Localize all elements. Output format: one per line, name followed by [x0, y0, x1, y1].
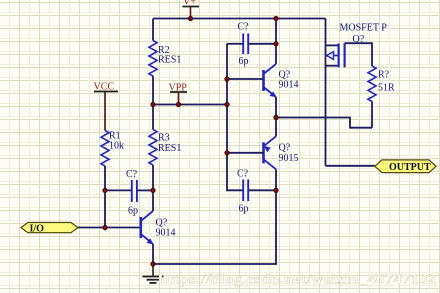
- wire Q1 base: [227, 78, 264, 80]
- node VPP left: [151, 102, 155, 106]
- port OUTPUT: [375, 160, 436, 173]
- resistor R3: [149, 105, 181, 191]
- node VPP stem: [176, 102, 180, 106]
- svg-text:I/O: I/O: [30, 223, 45, 234]
- svg-text:RES1: RES1: [158, 55, 181, 66]
- node R3 bottom: [151, 188, 155, 192]
- wire drain to OUTPUT: [326, 165, 375, 167]
- ground: [143, 264, 164, 283]
- svg-text:MOSFET P: MOSFET P: [340, 23, 388, 34]
- wire right column from rail down: [275, 19, 277, 65]
- wire column mid from C1 corner down: [227, 44, 243, 191]
- svg-text:OUTPUT: OUTPUT: [389, 162, 431, 173]
- wire bottom rail: [153, 190, 276, 264]
- wire top rail: [153, 18, 326, 20]
- svg-text:Q?: Q?: [279, 143, 291, 154]
- wire R2 bottom to VPP rail: [152, 76, 154, 105]
- node ground: [151, 262, 155, 266]
- node C1 right: [274, 42, 278, 46]
- svg-text:https://blog.csdn.net/weixin_4: https://blog.csdn.net/weixin_46747102: [158, 272, 436, 287]
- node emitter out: [274, 115, 278, 119]
- wire Q2 collector down: [275, 169, 277, 190]
- resistor R4 51R: [368, 66, 395, 102]
- capacitor C4 left 6p: [105, 169, 153, 217]
- wire output node to gate resistor: [276, 118, 372, 128]
- svg-text:6p: 6p: [128, 206, 138, 217]
- transistor Q1 9014 top: [264, 64, 299, 98]
- svg-text:10k: 10k: [109, 141, 124, 152]
- wire left drop to R2: [152, 19, 154, 41]
- transistor Q4 9014 bottom: [141, 211, 176, 245]
- svg-text:6p: 6p: [239, 204, 249, 215]
- wire VPP rail: [153, 104, 227, 106]
- capacitor C1 top 6p: [227, 22, 276, 68]
- svg-text:9014: 9014: [156, 228, 176, 239]
- node C3 right: [274, 188, 278, 192]
- wire Q4 emitter down: [152, 244, 154, 264]
- svg-text:C?: C?: [237, 169, 249, 180]
- wire left node column: [104, 190, 106, 227]
- svg-text:51R: 51R: [378, 83, 395, 94]
- wire gate lead: [345, 43, 372, 66]
- node VPP right: [225, 102, 229, 106]
- node I/O: [103, 225, 107, 229]
- svg-text:C?: C?: [238, 22, 250, 33]
- svg-text:R?: R?: [378, 70, 390, 81]
- node junction dots: [103, 16, 278, 266]
- svg-text:9015: 9015: [279, 153, 299, 164]
- node V+ rail: [188, 16, 192, 20]
- svg-text:C?: C?: [126, 169, 138, 180]
- power VPP: [169, 83, 188, 105]
- svg-text:RES1: RES1: [158, 143, 181, 154]
- wire R4 bottom lead: [371, 102, 373, 128]
- wire Q4 collector up: [152, 190, 154, 211]
- power V+: [183, 0, 200, 19]
- transistor Q2 9015: [264, 136, 299, 169]
- wire Q1 emitter to node: [275, 97, 277, 136]
- wire MOSFET source column: [325, 19, 327, 166]
- transistor Q3 MOSFET P: [326, 23, 388, 68]
- port I/O: [21, 223, 78, 235]
- svg-text:R3: R3: [158, 133, 170, 144]
- node R1 bottom: [103, 188, 107, 192]
- svg-text:6p: 6p: [239, 56, 249, 67]
- power VCC: [94, 82, 119, 131]
- resistor R1: [101, 131, 124, 191]
- svg-text:9014: 9014: [279, 80, 299, 91]
- resistor R2: [149, 41, 181, 77]
- wire I/O to node: [78, 227, 141, 229]
- node rail/C1 column: [274, 16, 278, 20]
- node Q1 base: [225, 77, 229, 81]
- node Q2 base: [225, 151, 229, 155]
- wire Q2 base: [227, 152, 264, 154]
- capacitor C3 middle 6p: [237, 169, 276, 215]
